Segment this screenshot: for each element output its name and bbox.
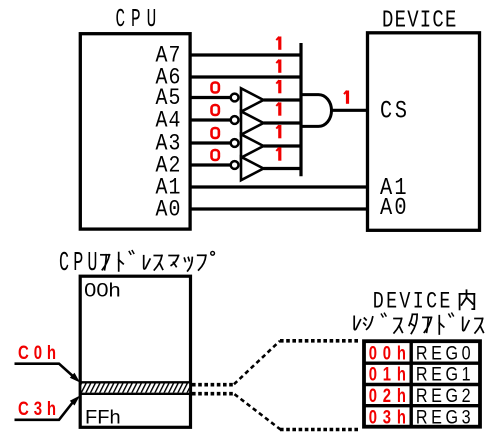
wire A3 input [190,141,231,144]
inverter U3 (A3) [231,134,264,157]
svg-text:DEVICE: DEVICE [382,6,456,34]
svg-text:A0: A0 [156,196,181,223]
register area label kanji 内 [460,290,475,309]
map title katakana レ [144,256,150,269]
pin label CS [380,97,407,125]
dotted leader upper from band [192,383,234,387]
register label katakana シ [364,317,373,329]
map title katakana ス [154,256,162,270]
hatched register band top border [81,381,189,383]
svg-text:02h: 02h [369,385,406,406]
map title text CPU [59,247,97,278]
pin label A2 [156,152,181,179]
svg-text:03h: 03h [369,407,406,428]
register table frame [364,341,480,427]
register name REG1 [416,363,471,385]
pin label A0 [156,196,181,223]
wire A4 input [190,118,231,121]
register label katakana dakuten 1 [381,313,386,317]
wire inverter U1 output [264,98,303,101]
register label katakana タ [409,314,417,333]
wire A5 input [190,96,231,99]
logic level 0 on A2 [212,150,219,160]
logic level 1 on inverted A5 [276,80,280,93]
pin label A7 [156,42,181,69]
register address 01h [369,364,406,385]
map title handakuten [211,251,215,255]
register address 03h [369,407,406,428]
address label C0h [18,341,56,363]
DEVICE label [382,6,456,34]
arrowhead C3h [70,396,80,406]
pin label A5 [156,84,181,111]
dotted leader to table bottom [280,428,359,432]
wire A6 [190,75,303,78]
logic level 1 on inverted A3 [276,125,280,138]
logic level 0 on A3 [212,128,219,138]
register name REG2 [416,385,471,407]
wire inverter U4 output [264,167,303,170]
wire CS output [332,109,368,112]
CPU box [80,34,190,229]
register label katakana レ [354,316,360,329]
inverter U2 (A4) [231,111,264,134]
pin label A0 (device side) [380,194,407,221]
address label C3h [18,397,56,419]
wire A2 input [190,163,231,166]
map title katakana ッ [184,258,192,271]
CPU address map box [80,276,190,427]
pin label A1 [156,174,181,201]
map title katakana dakuten [129,251,134,255]
register label katakana ア [423,317,432,332]
register label katakana ト [439,316,444,334]
wire A1 [190,185,367,188]
register name REG0 [416,342,471,364]
logic level 0 on A5 [212,83,219,93]
logic level 1 on A6 [276,60,280,73]
pin label A1 (device side) [380,174,407,201]
svg-text:C0h: C0h [18,341,56,363]
svg-text:CPU: CPU [116,6,157,35]
inverter U4 (A2) [231,157,264,180]
logic level 1 on CS output [344,91,348,104]
register label katakana dakuten 2 [449,313,454,317]
map title katakana ト [119,253,124,271]
svg-text:01h: 01h [369,364,406,385]
svg-text:FFh: FFh [85,407,121,429]
AND gate input bus [299,43,302,176]
register name REG3 [416,406,471,428]
pin label A4 [156,107,181,134]
map title katakana ア [101,255,110,270]
register area label DEVICE [373,289,451,316]
wire inverter U3 output [264,144,303,147]
hatched register band fill [81,384,189,393]
wire inverter U2 output [264,121,303,124]
leader line C3h [15,400,76,420]
CPU label [116,6,157,35]
logic level 1 on A7 [276,37,280,50]
wire A0 [190,207,367,210]
register label katakana レ 2 [463,317,469,330]
AND gate U5 [301,95,332,127]
register label katakana ス 2 [475,319,483,333]
register address 02h [369,385,406,406]
leader line C0h [15,364,76,378]
inverter U1 (A5) [231,88,264,111]
arrowhead C0h [70,373,80,383]
wire A7 [190,53,303,56]
DEVICE box [368,33,480,231]
map title katakana マ [169,256,178,267]
svg-text:CPU: CPU [59,247,97,278]
svg-text:00h: 00h [369,343,406,364]
pin label A6 [156,64,181,91]
dashed diagonal lower [235,394,281,429]
pin label A3 [156,130,181,157]
logic level 1 on inverted A4 [276,102,280,115]
dotted leader to table top [280,339,359,343]
register address 00h [369,343,406,364]
map title katakana フ [198,255,206,270]
logic level 1 on inverted A2 [276,147,280,160]
hatched register band bottom border [81,393,189,395]
dotted leader lower from band [192,392,234,396]
svg-text:C3h: C3h [18,397,56,419]
logic level 0 on A4 [212,105,219,115]
register label katakana ス [394,319,402,333]
svg-text:00h: 00h [84,279,120,301]
dashed diagonal upper [234,341,280,384]
